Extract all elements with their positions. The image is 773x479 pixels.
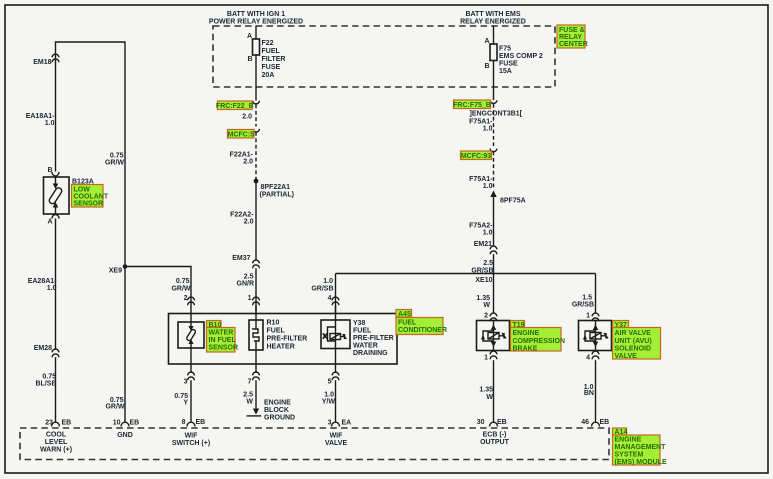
svg-text:2.0: 2.0 (244, 219, 254, 226)
wire F75A2 (493, 196, 495, 246)
svg-text:EB: EB (600, 419, 610, 426)
svg-text:ENGINE: ENGINE (615, 437, 642, 444)
wire label 0.75 GR/W lower (105, 397, 124, 411)
svg-text:F22: F22 (262, 40, 274, 47)
svg-text:GR/W: GR/W (105, 160, 124, 167)
connector hook MCFC:5 (253, 129, 260, 132)
svg-text:FUSE: FUSE (262, 64, 281, 71)
label FUSE & RELAY CENTER (557, 25, 588, 48)
svg-text:PRE-FILTER: PRE-FILTER (267, 336, 308, 343)
label MCFC:93 (461, 151, 492, 160)
wire label 2.5 GN/R (237, 274, 255, 288)
svg-text:Y38: Y38 (353, 320, 366, 327)
svg-text:SOLENOID: SOLENOID (615, 346, 652, 353)
svg-text:RELAY ENERGIZED: RELAY ENERGIZED (460, 19, 526, 26)
svg-text:GROUND: GROUND (264, 415, 295, 422)
wire to cool level warn (55, 357, 57, 422)
header BATT WITH IGN 1 (209, 11, 303, 26)
text R10 FUEL PRE-FILTER HEATER (267, 320, 308, 351)
svg-text:HEATER: HEATER (267, 344, 295, 351)
wire label 0.75 Y (174, 393, 188, 407)
svg-text:ECB (-): ECB (-) (483, 432, 507, 439)
svg-text:FUEL: FUEL (267, 328, 286, 335)
ground engine block (247, 400, 296, 422)
svg-text:BLOCK: BLOCK (264, 407, 289, 414)
EMS module dashed box (20, 428, 609, 460)
wire XE10 to T19 pin 2 (493, 274, 495, 314)
svg-text:EB: EB (62, 420, 72, 427)
wire label 2.5 GR/SB (471, 260, 493, 275)
svg-text:PRE-FILTER: PRE-FILTER (353, 335, 394, 342)
wire label F22A1 2.0 (230, 152, 254, 166)
fuse & relay center dashed box (213, 26, 555, 87)
svg-text:1.0: 1.0 (483, 230, 493, 237)
wire F22A1 dashed upper (255, 105, 257, 127)
svg-text:FUSE &: FUSE & (559, 27, 585, 34)
svg-text:SENSOR: SENSOR (74, 201, 104, 208)
wire Y37 pin4 down (595, 360, 597, 422)
wire label F75A1 1.0 (469, 119, 493, 133)
svg-text:WIF: WIF (330, 433, 344, 440)
svg-text:GR/SB: GR/SB (311, 286, 333, 293)
connector EM37 (232, 255, 259, 268)
text WIF SWITCH (+) (172, 433, 210, 448)
svg-text:ENGINE: ENGINE (264, 400, 291, 407)
svg-text:(EMS) MODULE: (EMS) MODULE (615, 459, 667, 466)
wire label F22A2 2.0 (230, 212, 254, 226)
wire XE10 horizontal bus (336, 273, 596, 275)
wire EA28A1 (55, 219, 57, 350)
svg-text:EA28A1-: EA28A1- (28, 278, 57, 285)
svg-text:0.75: 0.75 (42, 374, 56, 381)
svg-text:]ENGCONT3B1[: ]ENGCONT3B1[ (470, 111, 523, 118)
svg-text:GR/W: GR/W (171, 286, 190, 293)
sensor B123A (44, 177, 70, 214)
wire F22 B to FRC connector (255, 55, 257, 101)
wire label 1.35 W lower (479, 387, 493, 402)
wire Y38 pin 4 drop (335, 274, 337, 314)
wire WIF valve (335, 380, 337, 422)
svg-text:0.75: 0.75 (176, 278, 190, 285)
pin B of B123A (47, 167, 59, 176)
label MCFC:5 (228, 130, 255, 139)
connector EM28 (34, 345, 59, 357)
wire F75A1 dashed upper (493, 104, 495, 146)
svg-text:MCFC:93: MCFC:93 (461, 153, 491, 160)
solenoid Y37 air valve unit (579, 321, 612, 351)
pin 1 connector of Y37 (586, 313, 599, 322)
svg-text:GND: GND (117, 432, 133, 439)
svg-text:LEVEL: LEVEL (45, 439, 68, 446)
label Y37 (613, 321, 661, 361)
svg-text:B: B (247, 56, 252, 63)
svg-text:20A: 20A (262, 72, 275, 79)
svg-text:Y/W: Y/W (322, 399, 336, 406)
node XE9 (109, 264, 128, 274)
wire F75 B to FRC connector (493, 61, 495, 101)
label A14 (613, 428, 667, 466)
wire XE9 horizontal to WIF sensor (125, 267, 191, 314)
svg-text:CENTER: CENTER (559, 41, 588, 48)
left circuit: top U wire (56, 42, 126, 267)
wire WIF switch (190, 380, 192, 422)
svg-text:AIR VALVE: AIR VALVE (615, 330, 652, 337)
svg-text:1.35: 1.35 (479, 387, 493, 394)
heater R10 fuel pre-filter (249, 305, 263, 350)
svg-text:FILTER: FILTER (262, 56, 286, 63)
connector EM21 (474, 241, 497, 254)
wire label F75A1 1.0 (second) (469, 176, 493, 190)
wire F22A1 dashed lower (255, 132, 257, 179)
svg-text:5: 5 (328, 379, 332, 386)
svg-text:COOL: COOL (46, 432, 67, 439)
connector hook FRC:F22_B (253, 101, 260, 104)
splice junction 8PF22A1 (254, 179, 294, 199)
pin 1 connector of T19 (484, 351, 497, 361)
svg-text:EA18A1-: EA18A1- (26, 113, 55, 120)
svg-text:1.0: 1.0 (483, 126, 493, 133)
wire EA18A1 (55, 62, 57, 171)
svg-text:BRAKE: BRAKE (513, 345, 538, 352)
svg-text:BATT WITH EMS: BATT WITH EMS (465, 11, 520, 18)
svg-text:EB: EB (130, 420, 140, 427)
svg-text:8PF75A: 8PF75A (500, 198, 526, 205)
svg-text:EMS COMP 2: EMS COMP 2 (499, 53, 543, 60)
wire T19 pin1 to ECB output (493, 360, 495, 422)
wire F22 feed (top) (255, 26, 257, 40)
svg-text:F22A2-: F22A2- (230, 212, 254, 219)
pin 2 connector of T19 (484, 313, 497, 322)
svg-text:COOLANT: COOLANT (74, 194, 109, 201)
svg-text:GR/SB: GR/SB (572, 302, 594, 309)
wire XE10 to Y37 pin 1 (595, 274, 597, 314)
terminal 46 EB (581, 419, 609, 427)
svg-text:RELAY: RELAY (559, 34, 582, 41)
svg-text:WATER: WATER (353, 343, 378, 350)
svg-text:FUEL: FUEL (398, 320, 417, 327)
svg-text:W: W (246, 399, 253, 406)
svg-text:SWITCH (+): SWITCH (+) (172, 440, 210, 447)
svg-text:FRC:F22_B: FRC:F22_B (216, 103, 254, 110)
wire label 1.35 W (476, 295, 490, 309)
wire F75 feed (top) (493, 26, 495, 45)
svg-text:1: 1 (248, 295, 252, 302)
svg-text:WATER: WATER (209, 330, 234, 337)
svg-text:2: 2 (184, 295, 188, 302)
svg-text:8PF22A1: 8PF22A1 (261, 184, 291, 191)
svg-text:1.0: 1.0 (323, 278, 333, 285)
svg-text:F75: F75 (499, 46, 511, 53)
svg-text:EM21: EM21 (474, 241, 492, 248)
svg-text:F75A1-: F75A1- (469, 176, 493, 183)
svg-text:W: W (486, 394, 493, 401)
pin A of B123A (47, 215, 59, 226)
pin 4 connector of Y37 (586, 351, 599, 361)
svg-text:Y: Y (183, 400, 188, 407)
svg-text:BN: BN (584, 390, 594, 397)
splice arrow 8PF75A (490, 191, 525, 205)
wire label 0.75 GR/W (WIF pin 2) (171, 278, 190, 293)
terminal 10 EB (113, 420, 140, 427)
svg-text:POWER RELAY ENERGIZED: POWER RELAY ENERGIZED (209, 19, 303, 26)
wire label 1.0 Y/W (322, 392, 336, 406)
svg-text:EB: EB (497, 419, 507, 426)
svg-text:B: B (484, 63, 489, 70)
wire F22A2 (255, 181, 257, 260)
svg-text:EM28: EM28 (34, 345, 52, 352)
svg-text:IN FUEL: IN FUEL (209, 337, 237, 344)
svg-text:FUSE: FUSE (499, 61, 518, 68)
svg-text:2.5: 2.5 (483, 260, 493, 267)
wire to engine block ground (255, 380, 257, 413)
svg-text:EB: EB (196, 419, 206, 426)
svg-text:W: W (483, 302, 490, 309)
pin 5 connector of Y38 (328, 349, 339, 386)
svg-text:10: 10 (113, 420, 121, 427)
header BATT WITH EMS (460, 11, 526, 26)
svg-text:2: 2 (484, 313, 488, 320)
pin 7 connector of R10 (248, 350, 260, 386)
svg-text:UNIT (AVU): UNIT (AVU) (615, 338, 652, 345)
svg-text:1.35: 1.35 (476, 295, 490, 302)
wire F75A1 dashed lower (493, 152, 495, 189)
svg-text:8: 8 (182, 419, 186, 426)
wire EM21 to XE10 (493, 254, 495, 273)
label A45 (396, 310, 447, 335)
svg-text:(PARTIAL): (PARTIAL) (260, 192, 294, 199)
svg-text:EA: EA (342, 420, 352, 427)
svg-text:LOW: LOW (74, 187, 91, 194)
svg-text:WIF: WIF (185, 433, 199, 440)
svg-text:0.75: 0.75 (110, 153, 124, 160)
fuel conditioner big box (169, 314, 398, 365)
svg-text:2.0: 2.0 (242, 114, 252, 121)
wire label EA18A1 1.0 (26, 113, 55, 127)
svg-text:EM18: EM18 (33, 59, 51, 66)
text ECB (-) OUTPUT (480, 432, 510, 447)
svg-text:SYSTEM: SYSTEM (615, 452, 644, 459)
svg-text:MCFC:5: MCFC:5 (228, 131, 255, 138)
svg-text:2.0: 2.0 (243, 159, 253, 166)
svg-text:VALVE: VALVE (325, 440, 348, 447)
wire label F75A2 1.0 (469, 223, 493, 237)
svg-text:1: 1 (484, 355, 488, 362)
svg-text:1.0: 1.0 (483, 183, 493, 190)
sensor B10 water in fuel (178, 314, 204, 349)
svg-text:FUEL: FUEL (353, 328, 372, 335)
svg-text:OUTPUT: OUTPUT (480, 439, 510, 446)
svg-text:EM37: EM37 (232, 255, 250, 262)
text WIF VALVE (325, 433, 348, 448)
text Y38 FUEL PRE-FILTER WATER DRAINING (353, 320, 394, 357)
wire label 0.75 BL/SB (36, 374, 57, 388)
wire label EA28A1 1.0 (28, 278, 57, 292)
pin 2 connector of B10 (184, 295, 195, 305)
label B123A (72, 179, 109, 208)
text COOL LEVEL WARN (+) (40, 432, 72, 454)
svg-text:4: 4 (586, 355, 590, 362)
svg-text:46: 46 (581, 419, 589, 426)
svg-text:BATT WITH IGN 1: BATT WITH IGN 1 (227, 11, 285, 18)
label B10 (207, 321, 239, 353)
wire label 1.0 GR/SB (311, 278, 333, 293)
svg-text:4: 4 (328, 295, 332, 302)
svg-text:7: 7 (248, 379, 252, 386)
solenoid T19 engine compression brake (477, 321, 510, 351)
svg-text:1.5: 1.5 (582, 295, 592, 302)
svg-text:1.0: 1.0 (324, 392, 334, 399)
svg-text:DRAINING: DRAINING (353, 350, 388, 357)
connector EM18 (33, 54, 59, 66)
svg-text:15A: 15A (499, 68, 512, 75)
wire label 1.0 BN (584, 384, 594, 397)
pin 3 connector of B10 (184, 348, 195, 386)
svg-text:XE10: XE10 (475, 277, 492, 284)
svg-text:F75A2-: F75A2- (469, 223, 493, 230)
wire to R10 pin 1 (255, 268, 257, 313)
svg-text:A: A (247, 33, 252, 40)
svg-text:MANAGEMENT: MANAGEMENT (615, 444, 667, 451)
terminal 30 EB (477, 419, 507, 427)
svg-text:A: A (484, 38, 489, 45)
wire label 0.75 GR/W upper (105, 153, 124, 167)
pin 4 connector of Y38 (328, 295, 339, 305)
fuse F75 (484, 38, 542, 75)
svg-text:ENGINE: ENGINE (513, 330, 540, 337)
svg-text:BL/SB: BL/SB (36, 381, 57, 388)
svg-text:VALVE: VALVE (615, 353, 638, 360)
svg-text:FRC:F75_B: FRC:F75_B (453, 102, 491, 109)
terminal 23 EB (45, 420, 71, 427)
svg-text:1.0: 1.0 (47, 285, 57, 292)
wire XE9 down to GND (124, 267, 126, 423)
svg-text:2.5: 2.5 (244, 274, 254, 281)
svg-text:WARN (+): WARN (+) (40, 447, 72, 454)
label FRC:F75_B (453, 100, 491, 109)
svg-text:1.0: 1.0 (45, 120, 55, 127)
label T19 (511, 321, 566, 353)
svg-text:2.5: 2.5 (243, 392, 253, 399)
wire label 1.5 GR/SB (572, 295, 594, 309)
svg-text:F75A1-: F75A1- (469, 119, 493, 126)
svg-text:SENSOR: SENSOR (209, 345, 239, 352)
svg-text:GN/R: GN/R (237, 281, 255, 288)
wire label 2.5 W (243, 392, 253, 406)
svg-text:FUEL: FUEL (262, 48, 281, 55)
connector hook MCFC:93 (490, 149, 497, 152)
svg-text:F22A1-: F22A1- (230, 152, 254, 159)
terminal 8 EB (182, 419, 206, 427)
svg-text:30: 30 (477, 419, 485, 426)
svg-text:A: A (47, 219, 52, 226)
fuse F22 (247, 33, 286, 79)
svg-text:COMPRESSION: COMPRESSION (513, 338, 566, 345)
terminal 3 EA (328, 420, 352, 427)
svg-text:CONDITIONER: CONDITIONER (398, 327, 447, 334)
pin 1 connector of R10 (248, 295, 260, 305)
svg-text:R10: R10 (267, 320, 280, 327)
solenoid Y38 water draining (321, 305, 350, 348)
svg-text:1: 1 (586, 313, 590, 320)
connector hook FRC:F75_B (490, 100, 497, 103)
svg-text:GR/W: GR/W (105, 404, 124, 411)
label FRC:F22_B (216, 101, 254, 110)
svg-text:XE9: XE9 (109, 268, 122, 275)
